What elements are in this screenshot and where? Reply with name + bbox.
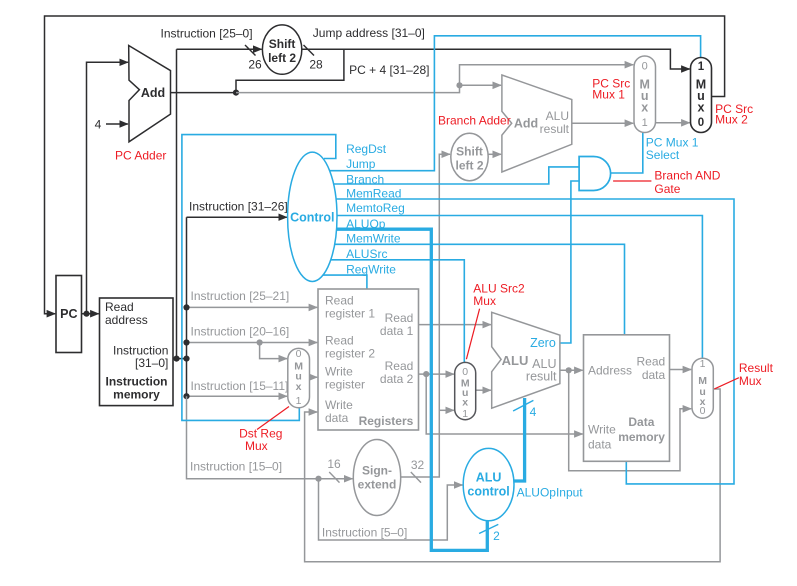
svg-text:Add: Add bbox=[141, 86, 165, 100]
label: ALUOp signal bbox=[346, 217, 386, 231]
label: ALUOpInput bbox=[517, 486, 584, 500]
wire: MemWrite from Control to Data memory bbox=[335, 244, 625, 334]
svg-text:RegWrite: RegWrite bbox=[346, 262, 396, 276]
wire: ALU Src2 Mux output to ALU input 2 bbox=[476, 389, 491, 391]
label: Instruction [25-0] bbox=[161, 26, 253, 40]
svg-text:data 2: data 2 bbox=[380, 372, 414, 386]
wire: PC Adder output to PC+4 junction bbox=[171, 92, 237, 94]
svg-text:Jump: Jump bbox=[346, 157, 376, 171]
svg-text:Mux: Mux bbox=[245, 439, 268, 453]
label: MemRead signal bbox=[346, 186, 401, 200]
svg-text:PC: PC bbox=[60, 307, 77, 321]
wire: Sign-extend output up to branch Shift left 2 bbox=[401, 154, 451, 477]
wire: PC Src Mux 1 output to PC Src Mux 2 input 0 bbox=[656, 122, 690, 124]
mux: Dst Reg Mux bbox=[288, 348, 310, 408]
annotation: PC Adder (red) bbox=[115, 149, 166, 163]
svg-text:1: 1 bbox=[462, 408, 468, 420]
mux: Result Mux bbox=[692, 358, 713, 418]
alu: main ALU bbox=[492, 312, 560, 408]
svg-text:26: 26 bbox=[248, 57, 262, 71]
svg-text:result: result bbox=[540, 122, 570, 136]
label: Instruction [5-0] bbox=[322, 526, 407, 540]
oval: Shift left 2 (jump) bbox=[262, 25, 301, 74]
svg-text:MemtoReg: MemtoReg bbox=[346, 201, 405, 215]
svg-text:PC Adder: PC Adder bbox=[115, 149, 166, 163]
label: bus width 2 bbox=[493, 529, 500, 543]
svg-text:Read: Read bbox=[637, 355, 666, 369]
svg-text:Zero: Zero bbox=[530, 336, 556, 350]
slash: 16-bit width mark bbox=[329, 472, 339, 483]
wire: Read data 2 to ALU Src2 Mux input 0 bbox=[419, 373, 454, 375]
label: bus width 28 bbox=[309, 57, 323, 71]
wire: jump address from Shift left 2 to PC Src Mux 2 input 1 bbox=[302, 49, 690, 69]
svg-text:data: data bbox=[588, 438, 612, 452]
svg-text:Jump address [31–0]: Jump address [31–0] bbox=[313, 26, 425, 40]
wire: Data memory Read data to Result Mux input 1 bbox=[670, 369, 692, 371]
svg-text:Write: Write bbox=[588, 423, 616, 437]
svg-text:Data: Data bbox=[628, 415, 654, 429]
svg-text:Branch AND: Branch AND bbox=[654, 168, 720, 182]
svg-text:x: x bbox=[462, 396, 468, 408]
label: Jump address [31-0] bbox=[313, 26, 425, 40]
label: Branch signal bbox=[346, 173, 384, 187]
wire: PC output to Instruction memory read address bbox=[82, 313, 99, 315]
wire: instruction bus vertical 1 (to jump path) bbox=[176, 49, 178, 358]
svg-text:Instruction [25–0]: Instruction [25–0] bbox=[161, 26, 253, 40]
mux: ALU Src2 Mux bbox=[455, 362, 476, 419]
svg-text:Instruction [25–21]: Instruction [25–21] bbox=[191, 289, 290, 303]
label: PC Mux 1 Select bbox=[646, 136, 699, 162]
svg-text:0: 0 bbox=[462, 366, 468, 378]
junction: Instruction [15-0] / [5-0] node bbox=[315, 476, 321, 482]
svg-text:Instruction [5–0]: Instruction [5–0] bbox=[322, 526, 407, 540]
label: constant 4 bbox=[95, 117, 102, 131]
wire: PC+4 to branch adder / PC Src Mux 1 input 0 bbox=[236, 65, 633, 93]
mux: PC Src Mux 1 bbox=[634, 56, 656, 133]
svg-text:Instruction [15–11]: Instruction [15–11] bbox=[191, 379, 289, 393]
wire: ALUOp from Control to ALU control (2-bit thick) bbox=[336, 229, 487, 550]
label: MemtoReg signal bbox=[346, 201, 405, 215]
svg-text:Write: Write bbox=[325, 365, 353, 379]
oval: Shift left 2 (branch) bbox=[451, 133, 488, 180]
svg-text:Registers: Registers bbox=[359, 414, 414, 428]
wire: Zero flag from ALU to AND gate input bbox=[560, 181, 579, 343]
wire: PC+4 into Branch Adder top input bbox=[460, 84, 502, 86]
svg-text:control: control bbox=[467, 484, 509, 498]
wire: Branch Adder output to PC Src Mux 1 input 1 bbox=[572, 122, 633, 124]
wire: Instruction [20-16] branch to Dst Reg Mux input 0 bbox=[260, 343, 287, 359]
junction: node on bus for Instruction [15-11] bbox=[183, 393, 189, 399]
wire: Branch from Control to AND gate input bbox=[334, 167, 580, 184]
svg-text:result: result bbox=[526, 369, 557, 383]
oval: Sign-extend bbox=[353, 440, 400, 516]
svg-text:memory: memory bbox=[618, 430, 665, 444]
label: PC + 4 [31-28] bbox=[349, 63, 429, 77]
wire: Instruction [20-16] to read register 2 bbox=[187, 342, 318, 344]
svg-text:Control: Control bbox=[290, 210, 334, 224]
junction: PC output node bbox=[83, 311, 89, 317]
wire: PC Src Mux 2 output loop back to PC bbox=[45, 16, 725, 314]
wire: Instruction [5-0] to ALU control bbox=[319, 479, 463, 540]
annotation: PC Src Mux 2 (red) bbox=[715, 102, 753, 126]
wire: Instruction [31-26] to Control bbox=[187, 216, 287, 218]
wire: MemtoReg from Control to Result Mux select bbox=[337, 216, 703, 359]
svg-text:register 1: register 1 bbox=[325, 307, 375, 321]
svg-text:Read: Read bbox=[385, 311, 414, 325]
wire: RegWrite from Control to Registers bbox=[323, 275, 367, 289]
svg-text:ALU: ALU bbox=[546, 109, 569, 123]
svg-text:Write: Write bbox=[325, 398, 353, 412]
wire: PC output up to PC Adder top input bbox=[87, 62, 128, 313]
wire: branch Shift left 2 output into Branch Adder bbox=[488, 153, 501, 155]
svg-text:Result: Result bbox=[739, 361, 774, 375]
svg-text:Instruction [15–0]: Instruction [15–0] bbox=[190, 460, 282, 474]
svg-text:left 2: left 2 bbox=[455, 158, 483, 172]
svg-text:data 1: data 1 bbox=[380, 324, 414, 338]
svg-text:Branch Adder: Branch Adder bbox=[438, 113, 511, 127]
svg-text:Mux: Mux bbox=[473, 294, 496, 308]
svg-text:Mux 2: Mux 2 bbox=[715, 112, 748, 126]
wire: ALUSrc from Control to ALU Src2 Mux select bbox=[331, 260, 465, 363]
wire: Instruction [25-21] to read register 1 bbox=[187, 306, 318, 308]
wire: ALU control output to ALU (4-bit thick) bbox=[514, 398, 525, 481]
wire: Read data 1 to ALU input 1 bbox=[419, 324, 491, 326]
label: bus width 32 bbox=[411, 458, 425, 472]
label: Instruction [20-16] bbox=[191, 324, 290, 338]
wire: PC+4 [31-28] step up to jump address bbox=[236, 49, 344, 92]
memory: Data memory bbox=[584, 335, 670, 462]
label: MemWrite signal bbox=[346, 232, 401, 246]
svg-text:left 2: left 2 bbox=[268, 51, 296, 65]
annotation: PC Src Mux 1 (red) bbox=[592, 77, 630, 102]
wire: Instruction [15-11] to Dst Reg Mux input 1 bbox=[187, 395, 288, 397]
wire: instruction bus vertical 2 bbox=[186, 217, 188, 396]
svg-text:Instruction [31–26]: Instruction [31–26] bbox=[189, 199, 288, 213]
wire: Instruction [25-0] from bus to Shift left 2 bbox=[177, 48, 262, 50]
junction: node Instruction [20-16] to mux bbox=[257, 339, 263, 345]
svg-text:1: 1 bbox=[642, 117, 648, 129]
svg-text:Address: Address bbox=[588, 363, 632, 377]
svg-text:ALUSrc: ALUSrc bbox=[346, 247, 387, 261]
junction: Read data 2 node bbox=[423, 371, 429, 377]
svg-text:Shift: Shift bbox=[456, 144, 483, 158]
wire: AND gate output to PC Src Mux 1 select bbox=[610, 133, 643, 174]
label: bus width 4 bbox=[530, 405, 537, 419]
register file: Registers bbox=[318, 289, 419, 430]
label: Jump signal bbox=[346, 157, 376, 171]
svg-text:0: 0 bbox=[700, 405, 706, 417]
label: RegDst signal bbox=[346, 142, 387, 156]
svg-text:register: register bbox=[325, 378, 365, 392]
adder U-PCAdd (PC Adder) bbox=[129, 46, 171, 142]
svg-text:register 2: register 2 bbox=[325, 347, 375, 361]
wire: ALU result down to Result Mux input 0 bbox=[569, 370, 692, 470]
svg-text:extend: extend bbox=[358, 477, 397, 491]
svg-text:16: 16 bbox=[327, 457, 341, 471]
junction: PC+4 branch node bbox=[456, 82, 462, 88]
svg-text:RegDst: RegDst bbox=[346, 142, 387, 156]
junction: ALU result node bbox=[566, 367, 572, 373]
wire: ALU result to Data memory Address bbox=[560, 369, 583, 371]
svg-text:Read: Read bbox=[325, 334, 354, 348]
svg-text:Read: Read bbox=[325, 294, 354, 308]
control unit: ALU control oval bbox=[463, 448, 514, 520]
svg-text:0: 0 bbox=[698, 117, 704, 129]
svg-text:32: 32 bbox=[411, 458, 425, 472]
mux: PC Src Mux 2 bbox=[691, 58, 712, 133]
junction: PC+4 node bbox=[233, 90, 239, 96]
register PC bbox=[56, 276, 82, 353]
svg-text:4: 4 bbox=[530, 405, 537, 419]
svg-text:Sign-: Sign- bbox=[362, 463, 392, 477]
wire: Instruction [15-0] to Sign-extend bbox=[187, 396, 353, 479]
label: bus width 26 bbox=[248, 57, 262, 71]
svg-text:2: 2 bbox=[493, 529, 500, 543]
svg-text:[31–0]: [31–0] bbox=[135, 356, 168, 370]
label: Instruction [15-11] bbox=[191, 379, 289, 393]
svg-text:x: x bbox=[641, 100, 648, 114]
annotation: Branch Adder (red) bbox=[438, 113, 511, 127]
label: Instruction [31-26] bbox=[189, 199, 288, 213]
svg-text:Branch: Branch bbox=[346, 173, 384, 187]
svg-text:PC + 4 [31–28]: PC + 4 [31–28] bbox=[349, 63, 429, 77]
svg-text:memory: memory bbox=[113, 388, 160, 402]
label: Instruction [15-0] bbox=[190, 460, 282, 474]
svg-text:4: 4 bbox=[95, 117, 102, 131]
svg-text:1: 1 bbox=[296, 395, 302, 407]
svg-text:ALU: ALU bbox=[476, 470, 502, 484]
slash: 32-bit width mark bbox=[411, 472, 421, 483]
slash: 2-bit width mark on ALUOp input bbox=[479, 524, 498, 533]
wire: sign-extend value to ALU Src2 Mux input 1 bbox=[439, 409, 454, 411]
svg-text:1: 1 bbox=[698, 61, 705, 73]
svg-text:Read: Read bbox=[105, 300, 134, 314]
svg-text:Instruction [20–16]: Instruction [20–16] bbox=[191, 324, 290, 338]
wire: Read data 2 down to Data memory Write data bbox=[426, 374, 583, 434]
junction: node on bus for Instruction [20-16] bbox=[183, 339, 189, 345]
svg-text:Mux: Mux bbox=[739, 374, 762, 388]
wire: Result Mux output loop back to Registers Write data bbox=[305, 389, 720, 562]
slash: 28-bit width mark bbox=[304, 45, 315, 56]
annotation: Dst Reg Mux (red) with leader bbox=[239, 407, 289, 454]
wire: MemRead from Control to Data memory bbox=[336, 199, 734, 484]
svg-text:28: 28 bbox=[309, 57, 323, 71]
wire: Jump from Control to PC Src Mux 2 select bbox=[329, 36, 700, 171]
wire: constant 4 into PC Adder bbox=[106, 123, 128, 125]
junction: node on bus for Instruction [25-21] bbox=[183, 304, 189, 310]
label: Instruction [25-21] bbox=[191, 289, 290, 303]
wire: Dst Reg Mux output to Write register bbox=[310, 376, 318, 378]
svg-text:0: 0 bbox=[642, 61, 648, 73]
slash: 26-bit width mark bbox=[245, 45, 256, 56]
label: bus width 16 bbox=[327, 457, 341, 471]
svg-text:ALUOpInput: ALUOpInput bbox=[517, 486, 584, 500]
label: ALUSrc signal bbox=[346, 247, 387, 261]
slash: 4-bit width mark on ALU control output bbox=[513, 400, 533, 411]
svg-text:address: address bbox=[105, 313, 148, 327]
svg-text:1: 1 bbox=[700, 358, 706, 370]
wire: RegDst from Control to Dst Reg Mux select bbox=[182, 135, 336, 421]
svg-text:x: x bbox=[296, 381, 302, 393]
wire: instruction memory output to bus junctions bbox=[173, 358, 187, 360]
svg-text:data: data bbox=[325, 411, 349, 425]
control unit: Control oval bbox=[288, 152, 337, 281]
svg-text:Gate: Gate bbox=[654, 182, 680, 196]
adder U-BranchAdd (Branch Adder) bbox=[502, 75, 572, 172]
svg-text:Add: Add bbox=[514, 117, 538, 131]
svg-text:Read: Read bbox=[385, 359, 414, 373]
svg-text:0: 0 bbox=[296, 348, 302, 360]
svg-text:MemWrite: MemWrite bbox=[346, 232, 401, 246]
junction: instruction bus node 1 bbox=[173, 356, 179, 362]
junction: instruction bus node 2 bbox=[183, 356, 189, 362]
memory: Instruction memory bbox=[100, 298, 174, 406]
gate: Branch AND gate bbox=[579, 157, 611, 191]
svg-text:Mux 1: Mux 1 bbox=[592, 88, 625, 102]
label: RegWrite signal bbox=[346, 262, 396, 276]
svg-text:Shift: Shift bbox=[269, 37, 296, 51]
svg-text:ALUOp: ALUOp bbox=[346, 217, 386, 231]
annotation: Branch AND Gate (red) with leader bbox=[613, 168, 721, 196]
svg-text:Select: Select bbox=[646, 148, 680, 162]
annotation: Result Mux (red) with leader bbox=[714, 361, 773, 389]
svg-text:ALU: ALU bbox=[502, 353, 529, 368]
annotation: ALU Src2 Mux (red) with leader bbox=[466, 282, 525, 360]
svg-text:x: x bbox=[698, 100, 705, 114]
svg-text:MemRead: MemRead bbox=[346, 186, 401, 200]
svg-text:data: data bbox=[642, 368, 666, 382]
